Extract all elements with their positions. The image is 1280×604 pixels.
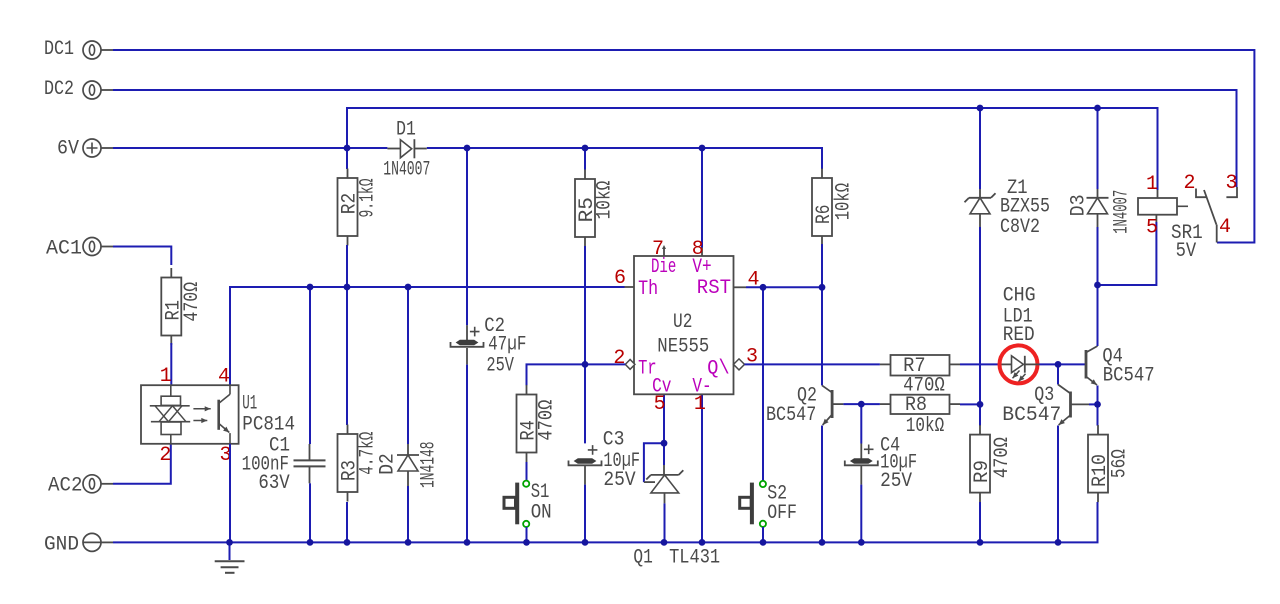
wire Q3 emitter to GND bbox=[1057, 426, 1059, 543]
wire C4 bottom to GND bbox=[860, 466, 862, 485]
svg-text:CHG: CHG bbox=[1003, 285, 1036, 308]
wire U1 pin4 to Th line bbox=[230, 287, 625, 385]
wire U2 pin8 V+ column bbox=[701, 148, 703, 248]
wire R5 top stub bbox=[584, 148, 586, 170]
U1 light arrows bbox=[193, 408, 210, 410]
svg-text:1: 1 bbox=[1146, 173, 1158, 196]
wire U1 pin3 to GND bbox=[229, 444, 231, 543]
wire S1 to GND bbox=[526, 527, 528, 542]
svg-text:63V: 63V bbox=[258, 472, 289, 495]
svg-text:470Ω: 470Ω bbox=[181, 282, 204, 322]
wire D2 column top bbox=[407, 287, 409, 444]
resistor R8 10k bbox=[891, 395, 950, 414]
op-amp U2 NE555 box bbox=[634, 256, 734, 394]
wire LED node down to Q3 collector bbox=[1057, 364, 1059, 384]
svg-text:U1: U1 bbox=[242, 393, 257, 416]
resistor R6 10k bbox=[821, 169, 823, 179]
wire GND rail bbox=[113, 502, 1098, 542]
svg-text:DC2: DC2 bbox=[44, 78, 74, 101]
svg-text:D1: D1 bbox=[396, 119, 416, 142]
svg-text:PC814: PC814 bbox=[242, 414, 295, 437]
diode D3 1N4007 bbox=[1087, 197, 1109, 199]
svg-text:RST: RST bbox=[697, 277, 731, 300]
svg-text:1N4007: 1N4007 bbox=[383, 159, 430, 182]
svg-text:DC1: DC1 bbox=[44, 38, 74, 61]
svg-text:10kΩ: 10kΩ bbox=[833, 183, 856, 220]
wire AC2 to U1 pin2 bbox=[113, 444, 171, 484]
resistor R9 470 bbox=[979, 425, 981, 435]
relay blade pin2 to pin4 bbox=[1204, 190, 1216, 225]
svg-text:56Ω: 56Ω bbox=[1109, 449, 1132, 478]
junction dots RST net bbox=[760, 284, 767, 291]
capacitor C4 10uF bbox=[860, 404, 862, 443]
wire LED to Q4 base bbox=[1025, 363, 1040, 365]
switch S2 OFF bbox=[760, 481, 766, 487]
svg-text:1N4007: 1N4007 bbox=[1111, 190, 1134, 234]
resistor R1 470 bbox=[170, 268, 172, 278]
svg-text:5V: 5V bbox=[1176, 240, 1197, 263]
zener Z1 BZX55 C8V2 bbox=[969, 197, 991, 199]
U2 pin4 stub bbox=[734, 286, 747, 288]
wire R2/R3 column Th to R3 bbox=[346, 287, 348, 425]
svg-text:TL431: TL431 bbox=[669, 547, 720, 570]
wire DC2 net bbox=[113, 90, 1237, 187]
resistor R2 9.1k bbox=[347, 169, 349, 179]
wire AC1 to R1 bbox=[113, 247, 171, 266]
junction dots V+ bus bbox=[977, 105, 984, 112]
svg-text:470Ω: 470Ω bbox=[991, 437, 1014, 478]
diode D2 1N4148 bbox=[397, 454, 419, 456]
LED LD1 RED bbox=[1012, 356, 1024, 373]
wire D2 bottom to GND bbox=[407, 471, 409, 486]
wire U2 pin7 stub bbox=[663, 248, 665, 257]
wire R9 bottom to GND bbox=[979, 502, 981, 542]
svg-text:C3: C3 bbox=[603, 429, 625, 452]
svg-text:NE555: NE555 bbox=[657, 335, 709, 358]
svg-text:5: 5 bbox=[1146, 217, 1158, 240]
U2 pin3 diamond bbox=[734, 359, 745, 370]
wire Q1 ref branch bbox=[644, 443, 664, 482]
wire Tr net (pin2 to R4) bbox=[527, 364, 626, 385]
resistor R5 10k bbox=[584, 170, 586, 180]
svg-text:Q1: Q1 bbox=[633, 547, 652, 570]
svg-text:BC547: BC547 bbox=[766, 404, 816, 427]
svg-text:2: 2 bbox=[159, 444, 171, 467]
optocoupler U1 PC814 bbox=[141, 385, 239, 444]
wire R4 to S1 bbox=[526, 462, 528, 481]
transistor Q3 BC547 bbox=[1069, 392, 1072, 418]
svg-text:470Ω: 470Ω bbox=[536, 400, 559, 441]
U1 phototransistor bbox=[217, 400, 220, 430]
wire C2 column from 6V bbox=[466, 148, 468, 325]
junction dot Q1 ref bbox=[661, 440, 668, 447]
svg-text:ON: ON bbox=[531, 502, 552, 525]
wire Q2 emitter to GND bbox=[821, 426, 823, 543]
wire D3 column top bbox=[1097, 108, 1099, 189]
wire R5 bottom through Th to Tr bbox=[584, 246, 586, 443]
wire R2 top stub bbox=[346, 148, 348, 169]
wire Z1 bottom to R8/R9 node bbox=[979, 214, 981, 227]
wire RST net pin4 to R6 bbox=[746, 286, 822, 288]
U1 input led pair bbox=[170, 385, 172, 396]
LED red ring bbox=[1000, 345, 1038, 383]
svg-text:BC547: BC547 bbox=[1103, 365, 1155, 388]
relay pin4 stub bbox=[1216, 225, 1218, 243]
wire Q4 collector up to relay node bbox=[1097, 285, 1099, 346]
wire DC1 net bbox=[113, 50, 1254, 243]
wire Q2 base to R8 bbox=[832, 403, 843, 405]
svg-text:1: 1 bbox=[160, 365, 172, 388]
junction dots Th net bbox=[307, 284, 314, 291]
svg-text:47µF: 47µF bbox=[488, 334, 526, 357]
wire V+ bus (line above 6V) bbox=[347, 108, 1158, 190]
relay contact pin2 bbox=[1196, 189, 1207, 198]
svg-text:BC547: BC547 bbox=[1002, 404, 1061, 427]
ground symbol bbox=[229, 542, 231, 560]
svg-text:U2: U2 bbox=[673, 311, 692, 334]
diode D1 1N4007 bbox=[387, 148, 400, 150]
svg-text:6V: 6V bbox=[57, 138, 79, 161]
junction dot Q output at Q4 base bbox=[1055, 361, 1062, 368]
wire R8 to R9 column bbox=[950, 403, 961, 405]
wire C2 bottom to GND bbox=[466, 348, 468, 365]
svg-text:2: 2 bbox=[1184, 172, 1196, 195]
wire R9 top stub bbox=[979, 404, 981, 425]
capacitor C3 10uF bbox=[588, 445, 598, 455]
svg-text:RED: RED bbox=[1003, 324, 1035, 347]
relay SR1 coil bbox=[1138, 198, 1177, 215]
wire D1 to R6 top bbox=[427, 148, 822, 169]
resistor R3 4.7k bbox=[347, 425, 349, 435]
svg-text:25V: 25V bbox=[486, 354, 514, 377]
wire R6 bottom to RST net and Q2 collector bbox=[821, 244, 823, 385]
svg-text:10kΩ: 10kΩ bbox=[906, 415, 944, 438]
svg-text:D3: D3 bbox=[1067, 194, 1090, 216]
junction dots GND rail bbox=[226, 539, 233, 546]
svg-text:6: 6 bbox=[614, 267, 626, 290]
svg-text:25V: 25V bbox=[880, 470, 912, 493]
wire R7 to LED bbox=[950, 363, 961, 365]
svg-text:1: 1 bbox=[694, 393, 706, 416]
wire 6V to D1 bbox=[113, 147, 387, 149]
svg-text:D2: D2 bbox=[377, 453, 400, 475]
wire S2 to GND bbox=[762, 527, 764, 542]
svg-text:OFF: OFF bbox=[767, 502, 797, 525]
wire R2 bottom to Th net bbox=[346, 245, 348, 287]
svg-text:10kΩ: 10kΩ bbox=[594, 181, 617, 220]
resistor R7 470 bbox=[891, 355, 950, 376]
resistor R10 56 bbox=[1097, 425, 1099, 435]
svg-text:5: 5 bbox=[654, 393, 666, 416]
svg-text:AC1: AC1 bbox=[46, 238, 82, 261]
wire relay pin5 branch bbox=[1098, 222, 1157, 285]
svg-text:25V: 25V bbox=[603, 469, 635, 492]
wire R1 to U1 pin1 bbox=[170, 343, 172, 385]
shunt reg Q1 TL431 symbol bbox=[663, 465, 665, 475]
transistor Q2 BC547 bbox=[831, 390, 834, 418]
relay pin3 stub bbox=[1226, 187, 1237, 197]
wire Q output net (pin3 to R7) bbox=[745, 363, 880, 365]
transistor Q4 BC547 bbox=[1085, 350, 1088, 379]
svg-text:7: 7 bbox=[652, 238, 664, 261]
capacitor C2 47uF bbox=[470, 327, 480, 337]
svg-text:3: 3 bbox=[1226, 172, 1238, 195]
junction dots R8 net bbox=[858, 401, 865, 408]
junction dot Tr net bbox=[582, 361, 589, 368]
svg-text:AC2: AC2 bbox=[48, 475, 83, 498]
wire Q4 emitter to R10 node bbox=[1097, 386, 1099, 405]
wire C3 bottom to GND bbox=[584, 466, 586, 485]
wire D3 bottom to relay node bbox=[1097, 214, 1099, 227]
switch S1 ON bbox=[523, 481, 529, 487]
wire R3 bottom to GND bbox=[346, 502, 348, 542]
wire U2 pin5 down to Q1 bbox=[663, 394, 665, 465]
svg-text:8: 8 bbox=[692, 238, 704, 261]
resistor R4 470 bbox=[526, 385, 528, 395]
svg-text:2: 2 bbox=[613, 347, 625, 370]
wire R10 top stub bbox=[1097, 404, 1099, 425]
svg-text:4: 4 bbox=[218, 366, 230, 389]
svg-text:9.1kΩ: 9.1kΩ bbox=[357, 179, 380, 218]
U2 pin2 diamond bbox=[625, 360, 635, 370]
wire U2 pin1 V- down to GND bbox=[701, 394, 703, 542]
wire Z1 column top bbox=[979, 108, 981, 189]
svg-text:4: 4 bbox=[1219, 216, 1231, 239]
wire C1 bottom to GND bbox=[309, 467, 311, 483]
capacitor C1 100nF bbox=[309, 287, 311, 444]
svg-text:R8: R8 bbox=[905, 394, 927, 417]
svg-text:1N4148: 1N4148 bbox=[418, 442, 441, 489]
junction dots 6V line bbox=[344, 145, 351, 152]
svg-text:GND: GND bbox=[44, 534, 79, 557]
wire RST column to S2 bbox=[762, 287, 764, 480]
svg-text:Th: Th bbox=[638, 278, 658, 301]
junction dot relay node bbox=[1094, 282, 1101, 289]
wire Th stub into U2 pin6 bbox=[625, 286, 635, 288]
svg-text:C8V2: C8V2 bbox=[1000, 216, 1040, 239]
relay armature link bbox=[1177, 205, 1188, 207]
